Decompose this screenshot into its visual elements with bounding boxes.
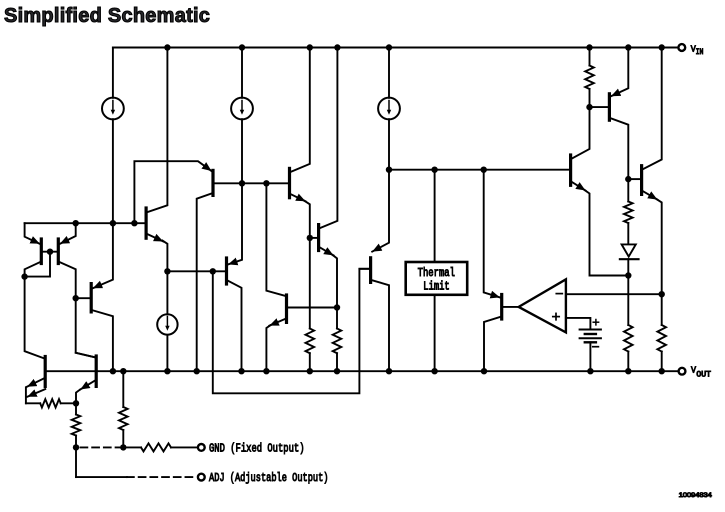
node Q8 base rail left — [164, 268, 170, 274]
wire Q7 emitter path — [134, 161, 211, 223]
node R6 top — [334, 304, 340, 310]
node bottom-rail x337 — [334, 368, 340, 374]
node top-rail x661.7 — [659, 44, 665, 50]
wire Q8 collector — [227, 280, 242, 371]
wire CS2 drop — [241, 48, 243, 98]
svg-text:GND (Fixed Output): GND (Fixed Output) — [209, 442, 305, 456]
wire R6 bottom lead — [336, 353, 338, 371]
wire R3 drop from rail — [122, 371, 124, 407]
resistor R9 vertical — [624, 325, 633, 352]
svg-text:10094834: 10094834 — [679, 492, 712, 499]
wire R10 bottom lead — [661, 352, 663, 372]
svg-text:OUT: OUT — [696, 370, 711, 379]
transistor Q9 bar — [288, 168, 291, 197]
wire I3 to mid rail — [388, 119, 390, 170]
node bottom-rail x628.3 — [625, 368, 631, 374]
wire Q13 emitter from mid rail — [484, 170, 500, 298]
resistor R8 vertical — [624, 202, 633, 224]
node left-rail x112.9 — [110, 220, 116, 226]
wire Q15 emitter — [571, 181, 586, 190]
wire R5 top lead — [309, 238, 311, 329]
transistor Q2 bar — [57, 239, 60, 264]
thermal limit text — [418, 267, 455, 294]
wire Q16 emitter — [642, 190, 658, 199]
wire Q16 collector to top rail — [642, 48, 662, 170]
wire Q11 collector to top rail — [319, 48, 338, 229]
wire I2 to Q5 base node — [241, 119, 243, 183]
wire left bias rail — [25, 222, 145, 224]
title text — [4, 5, 210, 27]
wire Q6 collector to top rail — [146, 48, 167, 213]
wire D1 cathode lead — [627, 259, 629, 275]
node bottom-rail x434.6 — [431, 368, 437, 374]
resistor R3 vertical — [119, 407, 128, 430]
transistor Q15 bar — [569, 155, 572, 185]
node mid-rail I3 — [386, 167, 392, 173]
wire ADJ solid — [76, 476, 127, 478]
node top-rail x309.8 — [307, 44, 313, 50]
wire U1 minus input — [566, 293, 662, 295]
svg-text:Thermal: Thermal — [418, 267, 455, 280]
wire Q9 collector to top rail — [290, 48, 310, 173]
node Q8 base link — [210, 268, 216, 274]
wire R9 top lead — [627, 276, 629, 326]
wire Q1 base tie — [41, 251, 58, 253]
node left-rail x75.7 — [73, 220, 79, 226]
wire Q12 emitter from I3 — [372, 170, 389, 252]
label ADJ — [209, 471, 329, 485]
resistor R1 horizontal — [40, 399, 61, 407]
wire Q3 base — [76, 297, 92, 299]
wire Q4 emitter 2 — [27, 389, 45, 397]
wire U1 plus input — [566, 318, 591, 330]
wire R2 leads — [75, 403, 77, 447]
node Q10 collector tap — [263, 180, 269, 186]
label VOUT — [691, 365, 711, 380]
node minus-Q17 emitter — [659, 291, 665, 297]
node mid-rail thermal — [431, 167, 437, 173]
wire Q11 emitter — [319, 247, 334, 256]
resistor R5 vertical — [306, 329, 315, 354]
transistor Q13 bar — [500, 295, 503, 320]
transistor Q10 bar — [285, 295, 288, 322]
wire Q7 emitter feed — [166, 271, 168, 314]
resistor R4 horizontal — [141, 443, 171, 451]
node R1-R2 junction — [73, 400, 79, 406]
wire base tie to collector — [25, 252, 50, 277]
transistor Q12 bar — [369, 258, 372, 283]
svg-text:IN: IN — [696, 48, 704, 57]
wire mid rail — [389, 169, 569, 171]
battery B1 plate2 — [585, 333, 596, 335]
node bottom-rail x112.9 — [110, 368, 116, 374]
node Q16 base — [625, 176, 631, 182]
node bottom-rail x590.4 — [587, 368, 593, 374]
wire Q9 emitter — [290, 194, 306, 202]
wire Q3 collector to bottom rail — [91, 310, 113, 371]
wire R3 lead — [122, 430, 124, 447]
node bottom-rail x266.4 — [263, 368, 269, 374]
wire Q7 base line — [213, 182, 290, 184]
svg-text:Limit: Limit — [423, 280, 449, 293]
resistor R10 vertical — [657, 325, 666, 352]
terminal ADJ — [198, 474, 205, 481]
wire GND lead — [123, 446, 141, 448]
wire R5 bottom lead — [309, 353, 311, 371]
wire Q14 emitter from top rail — [611, 48, 628, 97]
wire GND dashed link — [81, 446, 121, 448]
wire CS3 drop — [388, 48, 390, 98]
wire R1 lead left — [26, 402, 40, 404]
wire Q4 emitter 1 — [27, 378, 45, 387]
current source I2 — [231, 98, 253, 120]
wire R8 top lead — [627, 179, 629, 201]
transistor Q8 bar — [225, 258, 228, 284]
wire I1 to left rail — [112, 119, 114, 223]
current source I3 — [378, 98, 400, 120]
current source I1 — [102, 98, 124, 120]
wire cross-under net — [213, 269, 369, 394]
node Q15 base — [586, 104, 592, 110]
node bottom-rail x661.7 — [659, 368, 665, 374]
node top-rail x242 — [239, 44, 245, 50]
label GND — [209, 442, 305, 456]
battery B1 plate1 — [580, 329, 601, 331]
battery B1 plus label — [593, 320, 598, 325]
wire Q5L emitter — [80, 380, 96, 390]
battery B1 plate4 — [585, 341, 596, 343]
doc number — [679, 492, 712, 499]
wire Q16 emitter drop — [656, 199, 661, 294]
wire Q10 base line — [287, 307, 338, 309]
wire Q6 emitter — [146, 234, 163, 242]
wire Q13 base to op-amp — [502, 306, 519, 308]
resistor R6 vertical — [333, 329, 342, 354]
node top-rail x389 — [386, 44, 392, 50]
wire V_IN top rail — [113, 47, 679, 49]
wire R9 bottom lead — [627, 352, 629, 372]
terminal VIN — [678, 44, 685, 51]
current source I4 — [157, 314, 177, 334]
wire Q11 emitter drop — [333, 255, 338, 308]
node bottom-rail x309.8 — [307, 368, 313, 374]
wire Q10 collector from base line — [266, 183, 285, 295]
wire Q8 emitter from I2 — [228, 183, 242, 264]
wire Q5L collector — [76, 353, 97, 358]
node top-rail x628.3 — [625, 44, 631, 50]
node bottom-rail x241.5 — [238, 368, 244, 374]
wire Q15 collector — [571, 107, 590, 159]
wire Q10 emitter drop — [266, 325, 270, 371]
node Q11 base node — [307, 235, 313, 241]
wire R8 to D1 — [627, 223, 629, 244]
wire Q12 base — [359, 268, 370, 270]
wire R1 to node — [61, 402, 76, 404]
wire Q11 base — [310, 237, 319, 239]
wire R4 to GND terminal — [171, 446, 198, 448]
wire Q14 collector — [609, 118, 628, 179]
node R3 bottom — [120, 444, 126, 450]
transistor Q5L bar — [95, 356, 98, 386]
wire R7 top lead — [589, 48, 591, 66]
node Q7 base / I2 — [239, 180, 245, 186]
wire R6 top lead — [336, 308, 338, 329]
wire Q2 emitter from rail — [60, 223, 76, 244]
op-amp U1 — [519, 279, 566, 332]
wire Q4 emitter join — [25, 387, 27, 403]
transistor Q7 bar — [211, 170, 214, 195]
wire Q12 collector — [371, 280, 389, 371]
node left-rail x134.4 — [131, 220, 137, 226]
node Q3 base node — [73, 295, 79, 301]
node bottom-rail x389 — [386, 368, 392, 374]
wire Q9 emitter drop — [305, 201, 310, 238]
node Q1-Q2 base — [47, 249, 53, 255]
wire Q5L emitter drop — [76, 390, 80, 403]
node bottom-rail x196.7 — [194, 368, 200, 374]
wire Q1 emitter from rail — [25, 223, 40, 244]
transistor Q16 bar — [640, 166, 643, 195]
wire Q10 emitter — [269, 318, 286, 325]
diode D1 — [620, 244, 639, 259]
wire R10 top lead — [661, 294, 663, 325]
wire I4 to bottom rail — [166, 335, 168, 371]
battery B1 minus label — [593, 346, 599, 348]
transistor Q11 bar — [317, 225, 320, 251]
node bottom-rail x167.4 — [164, 368, 170, 374]
wire Q6 emitter drop — [163, 241, 168, 272]
wire ADJ vertical — [75, 447, 77, 477]
wire Q13 collector — [484, 317, 502, 372]
wire Q8 base line — [167, 270, 226, 272]
node R2 bottom — [73, 444, 79, 450]
node bottom-rail x484 — [481, 368, 487, 374]
wire Q7 collector — [197, 193, 213, 371]
terminal VOUT — [679, 368, 686, 375]
resistor R7 vertical — [585, 66, 594, 90]
node top-rail x337.4 — [334, 44, 340, 50]
wire Q3 emitter from I1 line — [93, 223, 113, 288]
svg-text:ADJ (Adjustable Output): ADJ (Adjustable Output) — [209, 471, 329, 485]
transistor Q3 bar — [90, 284, 93, 312]
wire Q15 emitter drop — [585, 190, 629, 276]
node top-rail x167.4 — [164, 44, 170, 50]
resistor R2 vertical — [72, 415, 81, 436]
terminal GND — [198, 444, 205, 451]
node mid-rail Q14 — [481, 167, 487, 173]
node bottom-rail x123.3 — [120, 368, 126, 374]
node Q1 collector tie — [21, 273, 27, 279]
wire thermal top lead — [434, 170, 436, 262]
transistor Q1 bar — [40, 239, 43, 264]
thermal limit box — [406, 262, 468, 295]
wire Q2 collector — [58, 262, 94, 358]
wire R7 bottom lead — [589, 89, 591, 107]
wire V_OUT bottom rail — [45, 370, 679, 372]
node top-rail x589.5 — [586, 44, 592, 50]
wire Q16 base — [628, 178, 641, 180]
wire thermal bottom lead — [434, 295, 436, 371]
wire Q14 base — [590, 106, 610, 108]
wire ADJ dashed — [127, 476, 197, 478]
transistor Q6 bar — [145, 208, 148, 238]
wire Q1 collector — [25, 262, 44, 359]
wire B1 to bottom rail — [589, 342, 591, 371]
node diode bottom junction — [625, 272, 631, 278]
label VIN — [691, 43, 704, 57]
battery B1 plate3 — [580, 337, 601, 339]
transistor Q14 bar — [608, 94, 611, 120]
transistor Q4 bar — [44, 357, 47, 387]
wire CS1 drop — [112, 48, 114, 98]
svg-text:Simplified Schematic: Simplified Schematic — [4, 5, 210, 27]
